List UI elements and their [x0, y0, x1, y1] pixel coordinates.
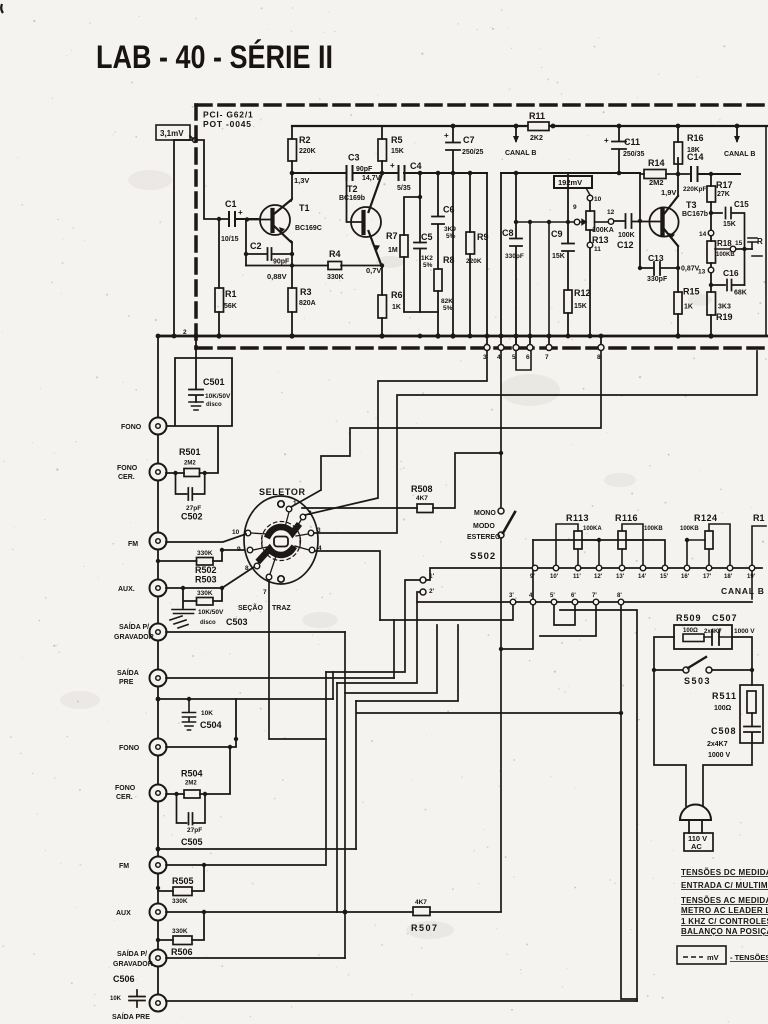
dots power [652, 668, 656, 672]
mesh bracket 4 [356, 625, 458, 701]
contact 9 [247, 547, 253, 553]
capacitor C8 [510, 173, 522, 348]
T2 emitter wire [381, 267, 383, 295]
ground bus bottom [158, 335, 768, 338]
svg-text:2: 2 [183, 329, 187, 336]
connector block under 5-6 [516, 351, 531, 370]
terminals 3'..8' [510, 599, 624, 605]
svg-text:R19: R19 [716, 312, 733, 322]
wire 7' drop [540, 606, 596, 636]
svg-text:4K7: 4K7 [415, 899, 427, 906]
svg-text:100Ω: 100Ω [714, 705, 732, 712]
wire R508 left [302, 507, 417, 509]
svg-text:0,88V: 0,88V [267, 272, 287, 281]
svg-text:82K: 82K [441, 298, 453, 305]
svg-text:CER.: CER. [118, 474, 135, 481]
svg-text:90pF: 90pF [273, 259, 290, 266]
switch S502 lever [503, 512, 515, 533]
selector mounting hole bottom [278, 576, 284, 582]
svg-text:10: 10 [232, 529, 240, 536]
wire SAIDA PRE A [166, 677, 394, 679]
capacitor C6 [432, 173, 444, 269]
svg-text:330K: 330K [197, 550, 213, 557]
svg-text:C14: C14 [687, 152, 704, 162]
rotor center shape [274, 537, 288, 547]
svg-text:BC169C: BC169C [295, 225, 322, 232]
svg-text:R124: R124 [694, 513, 718, 523]
rotor arc top black [268, 527, 297, 536]
wire C505 to mesh [158, 848, 356, 850]
pot R116 [618, 531, 626, 549]
R511 C508 outer box [740, 685, 763, 743]
resistor R11 on bus [528, 122, 549, 131]
terminal 6 [529, 336, 531, 344]
svg-text:C2: C2 [250, 241, 262, 251]
wire C3 to T2 base [347, 174, 362, 222]
left shield column [157, 336, 159, 1006]
svg-text:R18: R18 [717, 239, 732, 248]
resistor R3 [288, 288, 297, 312]
svg-text:R502: R502 [195, 565, 217, 575]
svg-text:14': 14' [638, 574, 647, 580]
wire C504 rail [158, 698, 333, 700]
svg-text:220K: 220K [466, 258, 482, 265]
resistor R507 + rail [413, 907, 430, 916]
svg-text:10/15: 10/15 [221, 236, 239, 243]
svg-text:C501: C501 [203, 377, 225, 387]
wire contact2 to terminal 3 [305, 351, 487, 515]
connector FONO B [150, 739, 167, 756]
svg-text:68K: 68K [734, 290, 747, 297]
svg-text:C8: C8 [502, 228, 514, 238]
svg-text:R113: R113 [566, 513, 589, 523]
resistor R501 [184, 469, 200, 477]
svg-text:+: + [390, 161, 395, 170]
resistor R16 [677, 126, 679, 142]
PCB dashed border left [194, 105, 198, 348]
svg-text:330pF: 330pF [647, 276, 668, 283]
svg-text:15: 15 [735, 240, 743, 247]
wire c504 rail riser [332, 672, 334, 699]
svg-text:27pF: 27pF [187, 827, 202, 834]
terminal 7 [548, 336, 550, 344]
svg-text:+: + [238, 208, 243, 217]
svg-text:5%: 5% [443, 305, 453, 312]
svg-text:R509: R509 [676, 613, 702, 623]
switch S503 [654, 669, 752, 671]
resistor R503 + brackets [197, 598, 214, 606]
wire R508 right to S502 [433, 453, 501, 508]
svg-text:C503: C503 [226, 617, 248, 627]
wire FONO B [166, 699, 236, 747]
svg-text:14,7V: 14,7V [362, 175, 381, 182]
wire FONO CER A [166, 426, 218, 473]
capacitor C15 + bracket [711, 208, 745, 286]
svg-text:ENTRADA C/ MULTIMET: ENTRADA C/ MULTIMET [681, 881, 768, 890]
svg-text:FONO: FONO [115, 785, 136, 792]
svg-text:100KB: 100KB [716, 252, 735, 258]
wire fm B riser [325, 672, 327, 865]
svg-text:TENSÕES DC MEDIDAS: TENSÕES DC MEDIDAS [681, 868, 768, 877]
svg-text:1000 V: 1000 V [708, 752, 731, 759]
svg-text:12: 12 [607, 209, 615, 216]
svg-text:330K: 330K [197, 590, 213, 597]
wire aux B riser [336, 683, 338, 912]
rotor arc bottom black [260, 549, 293, 560]
svg-text:R7: R7 [386, 231, 398, 241]
resistor R502 + brackets [197, 558, 214, 566]
svg-text:15K: 15K [574, 303, 587, 310]
svg-text:TRAZ: TRAZ [272, 605, 291, 612]
wire 5'-6' U bracket [554, 606, 575, 625]
wire stub bus to C501 box [195, 336, 197, 358]
svg-text:R15: R15 [683, 287, 700, 297]
svg-text:330pF: 330pF [505, 253, 524, 260]
wire SAIDA GRAV B [166, 957, 345, 959]
svg-text:1M: 1M [388, 247, 398, 254]
contact 4 [309, 547, 315, 553]
junction dots top [290, 171, 295, 176]
svg-text:820A: 820A [299, 300, 316, 307]
svg-text:T2: T2 [347, 184, 358, 194]
svg-text:R13: R13 [592, 235, 609, 245]
svg-text:330K: 330K [172, 928, 188, 935]
wire C4 to R7 [404, 173, 420, 243]
terminal 4 [500, 336, 502, 344]
svg-text:2M2: 2M2 [649, 178, 664, 187]
svg-text:10K: 10K [110, 996, 122, 1002]
svg-text:R508: R508 [411, 484, 433, 494]
svg-text:15': 15' [660, 574, 669, 580]
resistor R19 [710, 273, 712, 336]
contact 3 [308, 530, 314, 536]
resistor R506 + brackets [173, 936, 192, 945]
node 13 [708, 267, 714, 273]
svg-text:1': 1' [429, 573, 435, 580]
svg-text:9: 9 [237, 546, 241, 553]
capacitor C504 + ground [183, 699, 196, 730]
capacitor C4 [399, 166, 405, 180]
wire from C8 line to pot [516, 222, 574, 336]
pot R113 [574, 531, 582, 549]
svg-text:220KpF: 220KpF [683, 186, 707, 193]
svg-text:R8: R8 [443, 255, 455, 265]
svg-text:8': 8' [617, 593, 622, 599]
capacitor C2 + wire [246, 219, 292, 266]
svg-text:R6: R6 [391, 290, 403, 300]
SEC-POWER [654, 625, 763, 851]
svg-text:17': 17' [703, 574, 712, 580]
svg-text:14: 14 [699, 231, 707, 238]
node 1 input [193, 138, 198, 143]
svg-text:19': 19' [747, 574, 756, 580]
svg-text:C4: C4 [410, 161, 422, 171]
svg-text:FONO: FONO [121, 424, 142, 431]
resistor R17 [710, 174, 712, 230]
svg-text:2M2: 2M2 [184, 461, 196, 467]
svg-text:10K: 10K [201, 710, 213, 717]
terminal 8 [600, 336, 602, 344]
svg-text:R501: R501 [179, 447, 201, 457]
resistor R504 [184, 790, 200, 798]
svg-text:1K2: 1K2 [421, 255, 433, 262]
contact 1 [286, 506, 292, 512]
svg-text:R507: R507 [411, 923, 439, 933]
svg-text:R3: R3 [300, 287, 312, 297]
node 15 [730, 246, 736, 252]
svg-text:S502: S502 [470, 551, 496, 562]
capacitor C507 inside [712, 630, 719, 645]
capacitor C501 [189, 358, 203, 402]
terminals 9'..19' [532, 565, 755, 571]
R509 C507 box [674, 625, 732, 649]
svg-text:1K: 1K [392, 304, 401, 311]
svg-text:6': 6' [571, 593, 576, 599]
svg-text:1K: 1K [684, 304, 693, 311]
resistor R7 [400, 235, 408, 257]
T1 collector wire [291, 173, 292, 201]
wire box right to R511 [732, 637, 752, 685]
svg-text:BC167b: BC167b [682, 211, 708, 218]
connector FM B [150, 857, 167, 874]
svg-text:T1: T1 [299, 203, 310, 213]
svg-text:7: 7 [263, 589, 267, 596]
svg-text:disco: disco [206, 402, 222, 408]
svg-text:11: 11 [594, 246, 601, 253]
svg-text:90pF: 90pF [356, 166, 373, 173]
svg-text:R5: R5 [391, 135, 403, 145]
svg-text:220K: 220K [299, 148, 316, 155]
svg-text:disco: disco [200, 620, 216, 626]
svg-text:192mV: 192mV [558, 178, 582, 187]
svg-text:R506: R506 [171, 947, 193, 957]
svg-text:POT -0045: POT -0045 [203, 119, 252, 129]
svg-text:R503: R503 [195, 575, 217, 585]
wire canal A feed down [487, 174, 501, 336]
wire SAIDA PRE B [166, 1000, 637, 1002]
contact 8 [254, 563, 260, 569]
wire R511 down to plug [703, 743, 752, 806]
wire FM A to selector 10 [166, 534, 246, 542]
contact 2 [300, 514, 306, 520]
SEC-TOPRIGHT [484, 122, 766, 370]
svg-text:C15: C15 [734, 200, 749, 209]
svg-text:- TENSÕES: - TENSÕES [730, 953, 768, 962]
svg-text:15K: 15K [552, 253, 565, 260]
svg-text:R4: R4 [329, 249, 341, 259]
supply bus top [292, 125, 768, 127]
dots mesh [499, 451, 503, 455]
resistor R508 [417, 504, 433, 513]
svg-text:5%: 5% [423, 262, 433, 269]
PCB dashed border bottom [196, 346, 768, 350]
capacitor C13 [640, 262, 678, 275]
transistor T3 [649, 207, 678, 236]
svg-text:R: R [757, 237, 763, 246]
resistor R2 [291, 126, 293, 173]
svg-text:GRAVADOR: GRAVADOR [114, 634, 154, 641]
svg-text:SAÍDA PRE: SAÍDA PRE [112, 1012, 150, 1021]
svg-text:PCI- G62/1: PCI- G62/1 [203, 110, 254, 120]
svg-text:11': 11' [573, 574, 581, 580]
svg-text:MODO: MODO [473, 523, 495, 530]
wire AUX A [166, 587, 222, 589]
resistor R511 body [747, 691, 756, 713]
node 14 [708, 230, 714, 236]
resistor R6 [378, 295, 387, 318]
resistor R509 inside [683, 634, 704, 642]
wire FM B [166, 864, 325, 866]
svg-text:6: 6 [526, 354, 530, 361]
wire contact3 to canal B right [314, 351, 757, 533]
svg-text:2x4K7: 2x4K7 [707, 741, 728, 748]
svg-text:2': 2' [429, 588, 435, 595]
connector SAIDA PRE A [150, 670, 167, 687]
capacitor C502 bracket [176, 473, 205, 500]
wire AUX B + R507 rail [166, 911, 501, 913]
svg-text:2K2: 2K2 [530, 135, 543, 142]
192mV box [554, 176, 592, 188]
potentiometer R13 [587, 195, 593, 201]
SEC-MESH [269, 351, 757, 1001]
capacitor C505 bracket [177, 794, 206, 825]
connector SAIDA P/GRAVADOR A [150, 624, 167, 641]
row A bus wire [426, 568, 762, 580]
wire 3' drop via R508 [380, 606, 513, 620]
legend mv box [677, 946, 726, 964]
T3 emitter [677, 246, 679, 292]
switch S502 ESTEREO contact [498, 532, 504, 538]
wire saida pre B riser [560, 610, 637, 1001]
wire 3,1mV to node [190, 136, 193, 139]
terminal 3 [486, 336, 488, 344]
svg-text:1,3V: 1,3V [294, 176, 309, 185]
SEC-TEXTS [681, 868, 768, 936]
canal B arrow left [515, 126, 517, 141]
svg-text:C5: C5 [421, 232, 433, 242]
svg-text:10': 10' [550, 574, 559, 580]
svg-text:C12: C12 [617, 240, 634, 250]
svg-text:4K7: 4K7 [416, 495, 428, 502]
svg-text:5/35: 5/35 [397, 185, 411, 192]
svg-text:0,87V: 0,87V [681, 266, 700, 273]
connector AUX A [150, 580, 167, 597]
mesh bracket 3 [345, 625, 437, 693]
resistor R12 [564, 290, 572, 313]
svg-text:GRAVADOR: GRAVADOR [113, 961, 153, 968]
selector mounting hole top [278, 501, 284, 507]
plug dome [680, 805, 711, 821]
connector FONO CER A [150, 464, 167, 481]
svg-text:SAÍDA: SAÍDA [117, 668, 139, 677]
wire terminal4 to MONO [500, 351, 502, 507]
svg-text:C6: C6 [443, 205, 455, 215]
svg-text:330K: 330K [172, 898, 188, 905]
svg-text:R1: R1 [753, 513, 765, 523]
110V AC box [684, 833, 713, 851]
svg-text:R2: R2 [299, 135, 311, 145]
svg-text:9: 9 [573, 204, 577, 211]
svg-text:LAB - 40 - SÉRIE II: LAB - 40 - SÉRIE II [96, 39, 333, 75]
wire 8' drop long [621, 606, 637, 999]
svg-text:SAÍDA P/: SAÍDA P/ [117, 949, 147, 958]
svg-text:C13: C13 [648, 253, 664, 263]
svg-text:15K: 15K [391, 148, 404, 155]
svg-text:R511: R511 [712, 691, 737, 701]
capacitor C1 [229, 212, 258, 226]
svg-text:13: 13 [698, 269, 706, 276]
canal B arrow right [736, 126, 738, 141]
C501 box wires [166, 358, 232, 426]
T2 collector wire [381, 161, 383, 174]
svg-text:9': 9' [530, 574, 535, 580]
svg-text:R505: R505 [172, 876, 194, 886]
resistor R15 [674, 292, 682, 314]
transistor T2 [351, 207, 381, 237]
svg-text:7': 7' [592, 593, 597, 599]
svg-text:100KB: 100KB [644, 526, 663, 532]
svg-text:7: 7 [545, 354, 549, 361]
connector FM A [150, 533, 167, 550]
pot R1xx cut [752, 526, 766, 599]
capacitor C503 + ground [170, 610, 195, 629]
signal rail y173 [292, 172, 640, 174]
dots left column [156, 697, 161, 702]
svg-text:FM: FM [128, 541, 138, 548]
svg-text:5: 5 [512, 354, 516, 361]
mesh bracket 2 [337, 602, 417, 683]
PCB dashed border top [196, 103, 768, 107]
radial contact rays [251, 512, 309, 574]
svg-text:+: + [604, 136, 609, 145]
svg-text:100KA: 100KA [592, 227, 614, 234]
svg-text:BC169b: BC169b [339, 195, 365, 202]
contact 7 [266, 574, 272, 580]
svg-text:C16: C16 [723, 268, 739, 278]
MAIN [158, 105, 768, 348]
svg-text:C502: C502 [181, 512, 203, 522]
svg-text:C505: C505 [181, 837, 203, 847]
svg-text:330K: 330K [327, 274, 344, 281]
svg-text:AUX.: AUX. [118, 586, 135, 593]
svg-text:5': 5' [550, 593, 555, 599]
label 3,1mV box [156, 125, 190, 140]
svg-text:15K: 15K [723, 221, 736, 228]
svg-text:S503: S503 [684, 676, 711, 686]
resistor R14 + feedback wire [640, 173, 689, 268]
svg-text:BALANÇO NA POSIÇÃO: BALANÇO NA POSIÇÃO [681, 927, 768, 936]
resistor R505 + brackets [173, 887, 192, 896]
connector AUX B [150, 904, 167, 921]
terminal 2' [420, 589, 426, 595]
svg-text:27K: 27K [717, 191, 730, 198]
T1 emitter wire [291, 241, 292, 288]
wire saida grav B riser [344, 632, 346, 958]
SEC-SELECTOR [244, 496, 318, 584]
terminal 5 [515, 336, 517, 344]
junction dots ground bus [172, 334, 177, 339]
capacitor C508 [744, 727, 760, 744]
svg-text:AC: AC [691, 842, 702, 851]
capacitor C506 [129, 990, 145, 1007]
wire node to left ground drop [174, 140, 193, 336]
svg-text:250/25: 250/25 [462, 149, 484, 156]
svg-text:MONO: MONO [474, 510, 496, 517]
T3 collector [677, 158, 679, 196]
svg-text:C9: C9 [551, 229, 563, 239]
wire 8' route riser [356, 701, 621, 849]
svg-text:T3: T3 [686, 200, 697, 210]
